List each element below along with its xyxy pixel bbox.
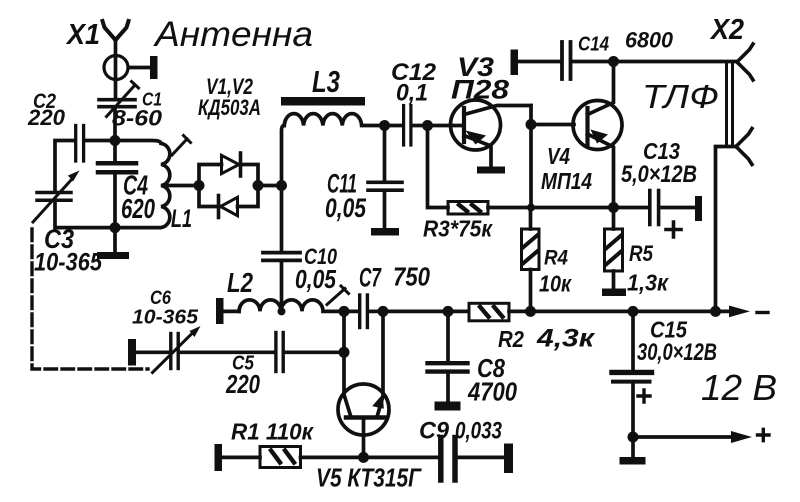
ground right of C13 bbox=[695, 196, 702, 221]
capacitor C10 bbox=[263, 186, 300, 312]
node R3-R4 junction bbox=[527, 204, 535, 212]
minus supply rail bbox=[509, 310, 729, 314]
node diode right bbox=[253, 180, 264, 191]
ground left of C14 bbox=[511, 50, 519, 76]
svg-text:750: 750 bbox=[393, 262, 430, 292]
connector X2 jack bbox=[716, 44, 754, 311]
ground chassis left of C6 bbox=[128, 339, 136, 366]
node V5 base link bbox=[339, 347, 350, 358]
svg-text:С7: С7 bbox=[359, 263, 382, 293]
svg-text:0,033: 0,033 bbox=[455, 418, 503, 445]
capacitor C8 bbox=[428, 311, 468, 401]
capacitor C2 bbox=[76, 126, 84, 162]
ground slab below C8 bbox=[435, 402, 461, 411]
wire C12 to V3 base bbox=[413, 124, 463, 128]
svg-text:10-365: 10-365 bbox=[132, 307, 199, 329]
svg-text:L2: L2 bbox=[227, 267, 253, 298]
wire R3 drop bbox=[428, 126, 449, 208]
capacitor C5 bbox=[276, 333, 344, 372]
capacitor C7 bbox=[360, 295, 468, 328]
ground below C15 bbox=[620, 457, 646, 465]
connector X1 socket circle bbox=[104, 56, 158, 80]
svg-text:С9: С9 bbox=[419, 418, 450, 445]
capacitor C9 bbox=[441, 438, 504, 481]
svg-text:V5 КТ315Г: V5 КТ315Г bbox=[316, 463, 422, 493]
ground below R5 bbox=[602, 289, 626, 297]
antenna symbol X1 bbox=[103, 21, 129, 98]
wire V4 base bbox=[531, 123, 574, 127]
ground chassis right of C9 bbox=[504, 444, 513, 474]
svg-text:4700: 4700 bbox=[467, 377, 517, 407]
transistor V5 bbox=[338, 384, 389, 457]
arrow minus output bbox=[729, 306, 750, 318]
svg-text:1,3к: 1,3к bbox=[627, 270, 669, 296]
wire C3 bottom to tank bottom bbox=[55, 203, 115, 228]
node C10 L2 bbox=[278, 307, 286, 315]
resistor R3 bbox=[448, 202, 488, 215]
plus supply line bbox=[633, 435, 731, 439]
node R4 bottom bbox=[525, 306, 536, 317]
capacitor C1 trimmer bbox=[99, 82, 139, 117]
svg-text:R5: R5 bbox=[629, 241, 654, 266]
ground chassis left of R1 bbox=[215, 444, 223, 471]
node plus junction bbox=[628, 432, 639, 443]
node V5 base bottom bbox=[358, 452, 369, 463]
resistor R5 bbox=[605, 208, 623, 289]
svg-text:8-60: 8-60 bbox=[112, 106, 163, 131]
wire V5 emitter vertical bbox=[378, 311, 384, 415]
ground V3 emitter bbox=[477, 167, 505, 174]
svg-text:КД503А: КД503А bbox=[198, 95, 261, 120]
svg-text:R3*75к: R3*75к bbox=[423, 216, 493, 242]
svg-text:6800: 6800 bbox=[625, 28, 674, 53]
svg-text:Х1: Х1 bbox=[65, 19, 100, 51]
svg-text:Х2: Х2 bbox=[709, 14, 744, 46]
wire antenna to tank top bbox=[113, 109, 117, 162]
svg-text:V4: V4 bbox=[547, 143, 570, 169]
svg-text:R1 110к: R1 110к bbox=[231, 419, 314, 445]
wire R3 to C13 row bbox=[488, 206, 614, 210]
svg-text:С14: С14 bbox=[578, 34, 609, 56]
capacitor C3 variable bbox=[33, 171, 80, 223]
wire L1 tap to diodes bbox=[163, 184, 199, 188]
capacitor C13 bbox=[614, 191, 696, 238]
resistor R1 bbox=[222, 447, 439, 468]
resistor R4 bbox=[522, 208, 540, 312]
transistor V3 bbox=[451, 100, 532, 167]
ground below C11 bbox=[371, 228, 399, 236]
resistor R2 bbox=[469, 303, 509, 321]
L1 trimmer arrow bbox=[172, 136, 191, 156]
ground chassis left of L2 bbox=[216, 298, 224, 324]
L3 core bar bbox=[281, 97, 365, 106]
capacitor C6 variable bbox=[136, 326, 274, 373]
L2 trimmer arrow bbox=[327, 286, 349, 305]
capacitor C4 bbox=[98, 163, 136, 227]
inductor L2 bbox=[224, 300, 359, 312]
gang dashed link C3-C6 bbox=[32, 229, 148, 369]
node R3 junction bbox=[422, 120, 433, 131]
node C15 top bbox=[628, 306, 639, 317]
svg-text:R2: R2 bbox=[498, 326, 524, 352]
svg-text:МП14: МП14 bbox=[541, 168, 592, 194]
svg-text:12 В: 12 В bbox=[701, 367, 777, 408]
node X2 return bbox=[710, 306, 721, 317]
wire tank top left to C2 bbox=[55, 141, 74, 191]
node C14 junction bbox=[608, 56, 619, 67]
arrow plus output bbox=[731, 431, 752, 443]
node tank bottom junction bbox=[110, 222, 121, 233]
wire diode out bbox=[258, 184, 282, 188]
inductor L3 bbox=[284, 114, 402, 126]
wire diode loop bbox=[199, 165, 258, 207]
minus sign bbox=[757, 311, 768, 314]
capacitor C11 bbox=[368, 126, 402, 229]
svg-text:R4: R4 bbox=[544, 247, 568, 270]
transistor V4 bbox=[573, 62, 622, 208]
diode V2 bbox=[219, 196, 238, 218]
svg-text:5,0×12В: 5,0×12В bbox=[621, 161, 697, 188]
node C11 junction bbox=[379, 120, 390, 131]
svg-text:30,0×12В: 30,0×12В bbox=[637, 339, 717, 366]
svg-text:10к: 10к bbox=[539, 271, 572, 297]
wire up to L3 bbox=[282, 126, 285, 186]
node C7 left bbox=[339, 306, 350, 317]
node tank top junction bbox=[110, 135, 121, 146]
svg-text:10-365: 10-365 bbox=[34, 249, 103, 277]
capacitor C15 bbox=[612, 311, 652, 457]
svg-text:П28: П28 bbox=[451, 75, 509, 105]
svg-text:0,05: 0,05 bbox=[325, 193, 367, 223]
node C8 junction bbox=[443, 306, 454, 317]
ground below tank bbox=[97, 228, 129, 259]
svg-text:L3: L3 bbox=[312, 64, 340, 99]
svg-text:4,3к: 4,3к bbox=[536, 325, 596, 353]
wire V5 collector vertical bbox=[344, 311, 351, 415]
node diode left bbox=[194, 180, 205, 191]
inductor L1 bbox=[115, 141, 170, 228]
diode V1 bbox=[222, 153, 241, 176]
plus sign output bbox=[758, 429, 770, 440]
svg-text:220: 220 bbox=[27, 105, 66, 130]
node V4 base junction bbox=[526, 119, 537, 130]
svg-text:0,05: 0,05 bbox=[295, 264, 336, 294]
capacitor C14 bbox=[518, 42, 736, 79]
capacitor C12 bbox=[404, 106, 411, 146]
wire V3 collector vertical bbox=[529, 106, 533, 208]
node V4 emitter junction bbox=[608, 202, 619, 213]
svg-text:Антенна: Антенна bbox=[153, 15, 313, 54]
svg-text:220: 220 bbox=[225, 369, 260, 399]
svg-text:ТЛФ: ТЛФ bbox=[642, 78, 719, 115]
node V5 emitter top bbox=[378, 306, 389, 317]
svg-text:0,1: 0,1 bbox=[396, 80, 428, 107]
svg-text:620: 620 bbox=[121, 193, 155, 224]
node L3 branch bbox=[276, 180, 287, 191]
svg-text:L1: L1 bbox=[171, 205, 192, 233]
